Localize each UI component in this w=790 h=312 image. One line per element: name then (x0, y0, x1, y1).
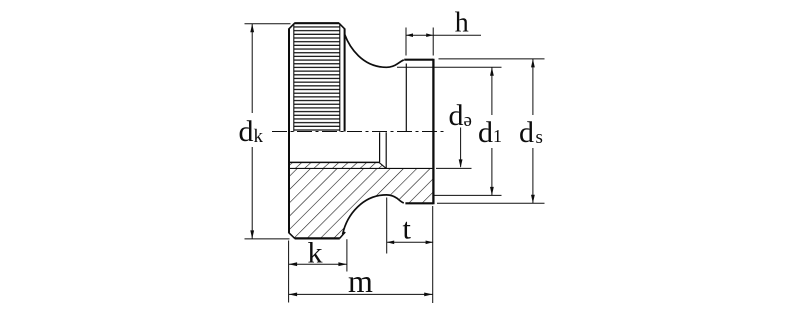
head outer left edge (288, 29, 290, 233)
dimension m arrow right (424, 293, 433, 297)
head outer right edge (344, 29, 346, 132)
dimension d1 extension line top (397, 66, 502, 68)
dimension t arrow left (387, 241, 395, 245)
svg-text:ds: ds (519, 116, 543, 149)
dimension h extension line left (405, 28, 407, 56)
svg-text:d1: d1 (478, 116, 502, 149)
axis centerline (272, 131, 447, 133)
svg-text:t: t (403, 213, 412, 246)
knurl lines (straight knurling on head) (294, 25, 340, 131)
head bottom-left chamfer (288, 232, 294, 238)
head inner chamfer line right (339, 24, 341, 131)
dimension m extension line right (432, 206, 434, 303)
counterbore circular edge (385, 132, 387, 168)
dimension dk line lower segment (251, 147, 253, 239)
dimension da extension line (436, 167, 472, 169)
dimension k arrow right (338, 262, 347, 266)
dimension dk extension line top (245, 23, 291, 25)
svg-text:m: m (348, 263, 373, 299)
head top-left chamfer (288, 23, 294, 29)
head top edge (294, 22, 339, 24)
head inner chamfer line left (293, 24, 295, 131)
dimension d1 line lower segment (491, 148, 493, 195)
head bottom-right chamfer (340, 232, 346, 238)
section hatch (main body cut) (289, 162, 433, 238)
dimension h line (406, 34, 433, 36)
dimension m arrow left (289, 293, 298, 297)
dimension ds arrow up (531, 59, 535, 68)
collar face circular edge (upper) (405, 64, 407, 132)
dimension t extension line left (386, 198, 388, 254)
dimension k extension line left (shared with m) (288, 241, 290, 303)
dimension t arrow right (426, 241, 434, 245)
dimension da arrow down (459, 159, 463, 168)
dimension d1 line upper segment (491, 67, 493, 115)
svg-text:dk: dk (239, 115, 264, 148)
dimension dk arrow up (250, 24, 254, 33)
dimension ds extension line bottom (437, 202, 545, 204)
head bottom edge (295, 237, 340, 239)
dimension t line (387, 241, 433, 243)
svg-text:k: k (308, 237, 323, 270)
fillet curve head-to-collar (lower) (343, 195, 404, 234)
dimension h arrow right (426, 33, 433, 37)
dimension dk arrow down (250, 230, 254, 239)
head top-right chamfer (339, 23, 345, 29)
dimension k line (289, 263, 347, 265)
collar bottom edge (405, 202, 433, 204)
dimension h arrow left (406, 33, 413, 37)
thread major / counterbore line (289, 167, 433, 169)
dimension ds extension line top (439, 58, 545, 60)
thread minor diameter line (289, 161, 380, 163)
thread end circular edge (379, 132, 381, 162)
dimension ds line upper segment (532, 59, 534, 115)
thread zone fine hatch band (289, 162, 386, 168)
dimension d1 extension line bottom (434, 194, 502, 196)
dimension m line (289, 293, 433, 295)
dimension h extension line right (432, 28, 434, 56)
collar top edge (404, 59, 433, 61)
svg-text:də: də (449, 99, 472, 132)
dimension dk line upper segment (251, 24, 253, 113)
svg-text:h: h (455, 8, 469, 39)
dimension da leader line (460, 128, 462, 167)
dimension d1 arrow down (490, 187, 494, 196)
thread runout chamfer (379, 162, 386, 168)
end face edge (432, 59, 434, 205)
dimension k arrow left (289, 262, 298, 266)
fillet curve head-to-collar (upper) (345, 34, 404, 67)
dimension k extension line right (346, 239, 348, 271)
dimension h leader to label (433, 34, 481, 36)
dimension ds arrow down (531, 195, 535, 204)
dimension ds line lower segment (532, 148, 534, 203)
dimension dk extension line bottom (245, 238, 290, 240)
dimension d1 arrow up (490, 67, 494, 76)
